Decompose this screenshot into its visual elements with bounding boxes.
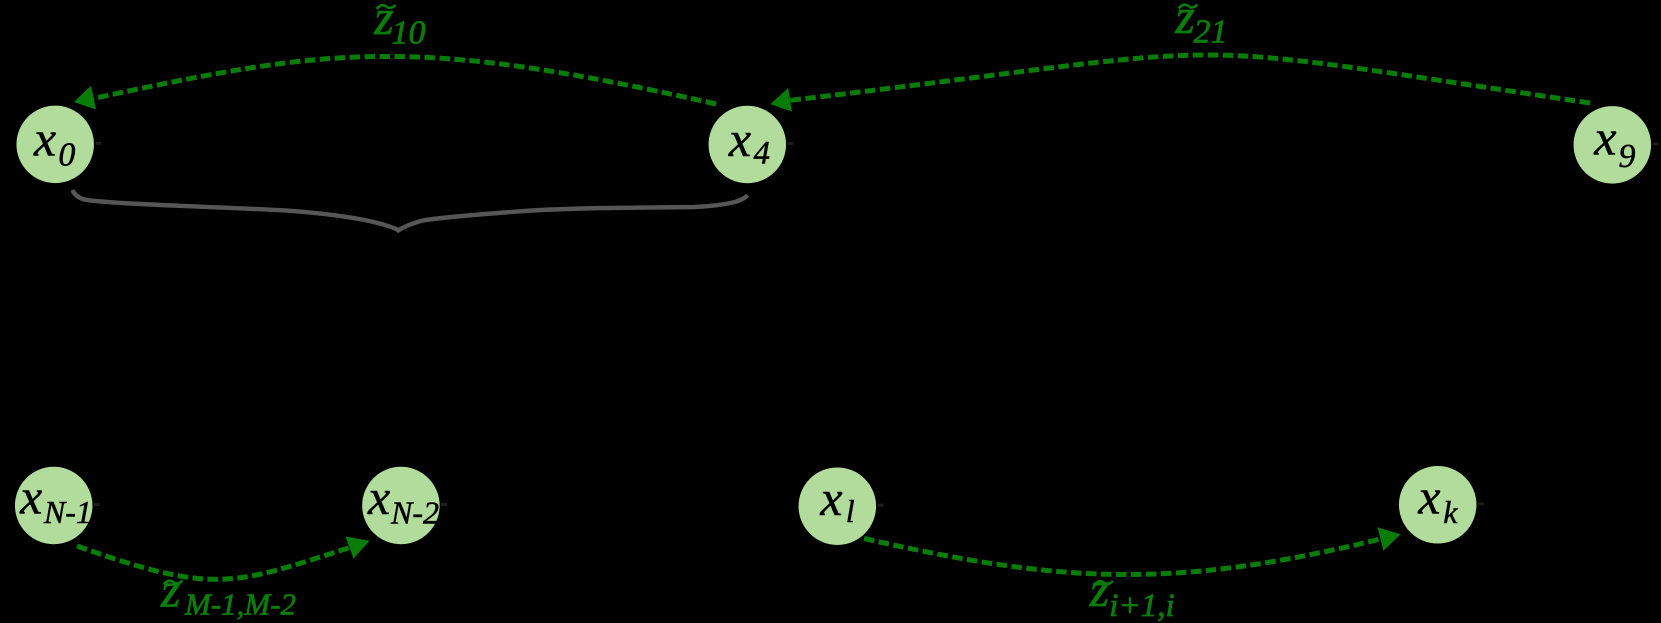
wire arc z10 (x4 to x0) xyxy=(84,56,716,104)
node xk xyxy=(1398,465,1477,544)
svg-text:z: z xyxy=(1089,561,1109,617)
svg-text:i+1,i: i+1,i xyxy=(1109,588,1174,623)
node x4 xyxy=(708,105,787,184)
node xN-2 xyxy=(362,466,441,545)
svg-text:N-1: N-1 xyxy=(43,494,92,530)
faint hidden-edge stub right of xk xyxy=(1478,502,1484,505)
arrowhead into x4 xyxy=(770,88,792,112)
svg-text:x: x xyxy=(819,470,842,526)
svg-text:x: x xyxy=(728,111,751,167)
svg-text:x: x xyxy=(1593,110,1616,166)
svg-text:21: 21 xyxy=(1194,14,1228,51)
arrowhead into xN-2 xyxy=(345,537,369,559)
svg-text:x: x xyxy=(33,111,56,167)
faint hidden-edge stub right of x4 xyxy=(788,142,794,145)
svg-text:x: x xyxy=(19,469,42,525)
label z10 xyxy=(373,0,425,52)
svg-text:0: 0 xyxy=(58,137,75,174)
svg-text:k: k xyxy=(1443,494,1458,530)
brace under x0..x4 xyxy=(73,190,748,230)
node x0 xyxy=(16,105,95,184)
arrowhead into xk xyxy=(1378,527,1401,550)
label z21 xyxy=(1174,0,1227,51)
svg-text:M-1,M-2: M-1,M-2 xyxy=(184,587,296,622)
arrowhead into x0 xyxy=(74,86,96,110)
node xN-1 xyxy=(14,466,93,545)
node xl xyxy=(798,467,877,546)
svg-text:9: 9 xyxy=(1619,138,1636,175)
wire arc z21 (x9 to x4) xyxy=(788,55,1590,103)
faint hidden-edge stub right of x0 xyxy=(95,142,101,145)
svg-text:z: z xyxy=(160,562,180,618)
label zM-1,M-2 xyxy=(160,562,296,622)
svg-text:x: x xyxy=(367,469,390,525)
svg-text:l: l xyxy=(846,493,855,529)
node x9 xyxy=(1573,105,1652,184)
faint hidden-edge stub right of xl xyxy=(877,504,883,507)
faint hidden-edge stub right of xN-2 xyxy=(441,503,447,506)
svg-text:10: 10 xyxy=(392,15,426,52)
svg-text:4: 4 xyxy=(754,136,771,172)
wire arc zM (xN-1 to xN-2) xyxy=(77,546,350,579)
wire arc zi (xl to xk) xyxy=(864,539,1381,575)
faint hidden-edge stub right of xN-1 xyxy=(94,503,100,506)
faint hidden-edge stub right of x9 xyxy=(1653,142,1659,145)
svg-text:x: x xyxy=(1417,469,1440,525)
label zi+1,i xyxy=(1089,561,1175,623)
svg-text:N-2: N-2 xyxy=(390,495,439,531)
